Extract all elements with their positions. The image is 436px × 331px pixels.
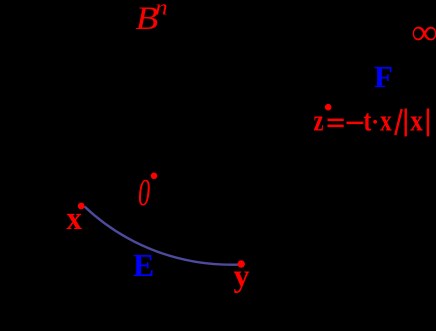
svg-text:F: F — [374, 59, 393, 94]
svg-text:E: E — [133, 247, 154, 283]
middle dot — [373, 120, 377, 124]
label B^n (ball) — [136, 0, 168, 37]
point z dot — [325, 104, 332, 111]
svg-text:x: x — [410, 103, 423, 138]
svg-text:n: n — [155, 0, 168, 20]
formula z=-t·x/|x| — [314, 103, 430, 138]
glyph slash — [395, 109, 401, 135]
point y dot — [238, 260, 245, 267]
point x dot — [78, 203, 85, 210]
svg-text:x: x — [380, 103, 392, 138]
glyph minus — [347, 122, 364, 125]
svg-text:y: y — [234, 257, 250, 293]
glyph bar 2 — [427, 109, 429, 137]
geodesic arc E (curve from x to y) — [85, 207, 242, 265]
glyph bar 1 — [405, 109, 407, 137]
svg-text:∞: ∞ — [412, 12, 436, 52]
svg-text:t: t — [364, 103, 372, 138]
svg-text:x: x — [66, 201, 82, 237]
svg-text:0: 0 — [138, 172, 150, 214]
glyph = (two bars) — [328, 119, 344, 122]
origin point 0 dot — [151, 173, 158, 180]
svg-text:z: z — [314, 103, 324, 138]
